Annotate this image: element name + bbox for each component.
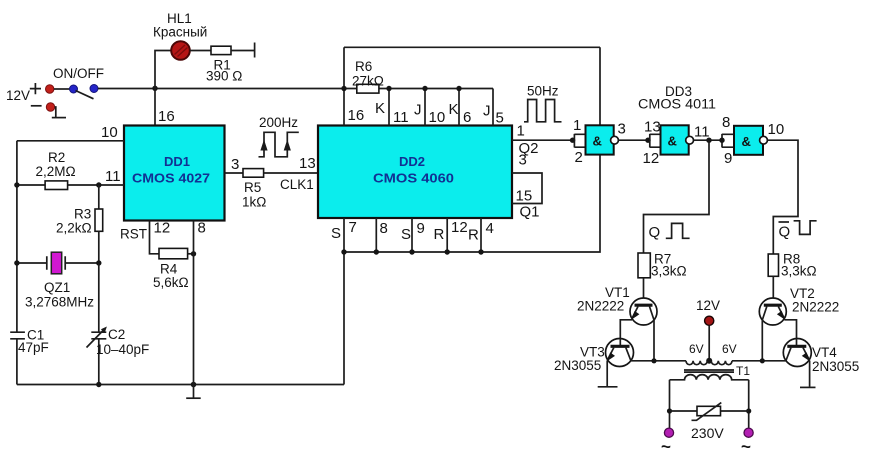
node crystal right <box>96 260 101 265</box>
svg-text:3: 3 <box>519 152 527 169</box>
wire DD2 pin8 <box>374 218 388 255</box>
svg-text:1: 1 <box>517 123 525 140</box>
svg-text:13: 13 <box>644 119 661 136</box>
svg-text:16: 16 <box>158 108 175 125</box>
svg-text:R3: R3 <box>74 207 91 222</box>
wire VT2 emitter to VT4 base <box>784 320 796 342</box>
svg-text:CMOS 4027: CMOS 4027 <box>132 171 210 186</box>
node VT1 collector junction <box>651 358 656 363</box>
svg-text:3: 3 <box>231 156 239 173</box>
pin 12 RST wire DD1 <box>120 220 170 254</box>
resistor R7 3,3k <box>638 252 687 279</box>
node C2 bottom <box>96 382 101 387</box>
svg-text:12V: 12V <box>696 298 720 313</box>
wire DD2 pin6 <box>456 86 471 126</box>
svg-text:12: 12 <box>451 219 468 236</box>
wire left vertical net <box>16 141 18 385</box>
wire DD2 pin5 <box>493 89 504 127</box>
node R4/pin8 <box>191 251 196 256</box>
svg-text:47pF: 47pF <box>18 340 49 355</box>
wire S/R bottom bus <box>344 47 600 384</box>
svg-text:1kΩ: 1kΩ <box>242 195 266 210</box>
node rail/pin16 <box>341 86 346 91</box>
pin 11 wire DD1 <box>17 168 124 185</box>
wire DD2 pin3 to pin15 loop Q1 <box>512 152 542 221</box>
svg-text:12: 12 <box>643 150 660 167</box>
svg-text:11: 11 <box>105 168 121 185</box>
svg-text:2N2222: 2N2222 <box>792 300 839 315</box>
svg-text:&: & <box>742 134 751 149</box>
svg-text:K: K <box>375 100 385 117</box>
svg-text:11: 11 <box>694 124 710 141</box>
wire gate1 input bracket <box>574 134 585 148</box>
svg-text:8: 8 <box>198 220 206 237</box>
transformer T1 secondary winding <box>670 364 751 380</box>
transformer T1 primary winding <box>686 342 737 365</box>
wire R1 to end bar <box>231 50 255 52</box>
svg-text:3: 3 <box>618 121 626 138</box>
svg-text:10: 10 <box>768 121 785 138</box>
svg-text:13: 13 <box>299 155 316 172</box>
svg-text:10: 10 <box>429 109 446 126</box>
ground VT3 emitter <box>598 361 618 387</box>
12V supply terminal <box>696 298 720 361</box>
svg-text:T1: T1 <box>736 364 750 378</box>
node varistor right <box>746 408 751 413</box>
resistor R2 2,2M <box>36 150 76 190</box>
svg-text:50Hz: 50Hz <box>527 84 559 99</box>
wire bottom ground bus <box>17 384 344 386</box>
transistor VT1 2N2222 <box>577 278 657 361</box>
wire secondary right lead <box>748 380 750 428</box>
svg-text:27kΩ: 27kΩ <box>352 74 384 89</box>
node gate1 input junction <box>570 138 575 143</box>
wire gate3 input bracket <box>722 134 734 148</box>
wire gate2 input bracket <box>650 134 661 148</box>
svg-text:12: 12 <box>154 220 171 237</box>
svg-text:2: 2 <box>575 149 583 166</box>
wire collector line left (to transformer) <box>630 360 686 362</box>
ground (main bus) <box>186 385 201 399</box>
ground VT4 emitter <box>800 361 816 388</box>
transformer T1 core <box>684 370 734 372</box>
wire DD2 pin11 <box>386 86 408 126</box>
resistor R5 1k <box>242 169 266 210</box>
pin 10 wire DD1 <box>17 124 124 141</box>
svg-text:7: 7 <box>349 219 357 236</box>
svg-text:QZ1: QZ1 <box>44 280 70 295</box>
wire VT1 emitter to VT3 base <box>620 320 632 342</box>
svg-text:3,2768MHz: 3,2768MHz <box>25 295 94 310</box>
svg-text:CMOS 4011: CMOS 4011 <box>638 97 716 112</box>
svg-text:ON/OFF: ON/OFF <box>53 66 104 81</box>
pin 8 wire DD1 <box>194 220 206 385</box>
wire crystal line <box>17 262 99 264</box>
op gate U1C NAND (DD3 pins 8,9,10) <box>722 114 784 167</box>
terminal end bar <box>254 43 256 58</box>
svg-text:~: ~ <box>741 437 751 456</box>
svg-text:9: 9 <box>724 150 732 167</box>
resistor R6 27k <box>352 59 384 93</box>
node gate2 input junction <box>645 138 650 143</box>
svg-text:10–40pF: 10–40pF <box>96 342 149 357</box>
svg-text:9: 9 <box>417 220 425 237</box>
svg-text:VT4: VT4 <box>812 345 837 360</box>
resistor R1 390 Ohm <box>206 46 242 83</box>
svg-text:200Hz: 200Hz <box>259 115 298 130</box>
IC DD1 CMOS 4027 <box>124 126 225 221</box>
svg-text:11: 11 <box>393 109 409 126</box>
svg-text:3,3kΩ: 3,3kΩ <box>781 264 817 279</box>
node crystal left <box>14 260 19 265</box>
wire top feedback bus <box>344 46 600 48</box>
battery plus terminal 12V <box>6 83 54 103</box>
svg-text:230V: 230V <box>691 425 724 441</box>
ground (battery minus) <box>52 107 66 118</box>
svg-text:DD2: DD2 <box>399 154 425 169</box>
resistor R8 3,3k <box>768 252 816 279</box>
wire: 12V rail <box>98 88 493 90</box>
svg-text:390 Ω: 390 Ω <box>206 69 242 84</box>
svg-text:Q1: Q1 <box>520 204 540 221</box>
svg-text:&: & <box>668 134 677 149</box>
svg-text:CMOS 4060: CMOS 4060 <box>373 171 454 186</box>
crystal QZ1 3,2768MHz <box>25 252 94 309</box>
wire DD2 pin4 <box>468 218 494 255</box>
svg-text:CLK1: CLK1 <box>280 177 314 192</box>
svg-text:5,6kΩ: 5,6kΩ <box>153 275 189 290</box>
switch ON/OFF <box>53 66 104 99</box>
Q waveform symbol <box>649 223 690 241</box>
svg-text:8: 8 <box>380 220 388 237</box>
node Q branch junction <box>706 138 711 143</box>
wire DD2 pin10 <box>422 86 445 126</box>
svg-text:&: & <box>593 134 602 149</box>
pin 3 wire DD1 to R5 <box>225 156 244 173</box>
svg-text:S: S <box>331 225 341 242</box>
svg-text:Q: Q <box>779 224 791 241</box>
wire R5 to DD2 pin13 CLK1 <box>264 155 318 192</box>
svg-text:R: R <box>434 226 445 243</box>
svg-text:K: K <box>449 101 459 118</box>
svg-text:10: 10 <box>101 124 118 141</box>
node varistor left <box>667 408 672 413</box>
node VT2 collector junction <box>760 358 765 363</box>
wire secondary left lead <box>669 380 671 428</box>
svg-text:~: ~ <box>661 437 671 456</box>
node ground junction <box>191 382 197 388</box>
wire Q line to R7 <box>644 140 710 253</box>
wire LED to R1 <box>190 50 211 52</box>
svg-text:2N3055: 2N3055 <box>812 359 859 374</box>
IC DD2 CMOS 4060 <box>318 126 512 219</box>
svg-text:C2: C2 <box>108 327 125 342</box>
capacitor C2 10-40pF (trimmer) <box>87 263 150 385</box>
svg-text:R5: R5 <box>244 180 261 195</box>
svg-text:8: 8 <box>722 114 730 131</box>
label DD3 CMOS 4011 <box>638 84 716 112</box>
node bus left <box>341 249 346 254</box>
op gate U1B NAND (DD3 pins 13,12,11) <box>643 119 710 168</box>
svg-text:Красный: Красный <box>153 25 207 40</box>
wire gate1 out to gate2 <box>618 139 649 141</box>
wire HL1 branch <box>155 51 171 126</box>
200Hz clock waveform symbol <box>259 115 299 157</box>
svg-text:S: S <box>401 226 411 243</box>
svg-text:RST: RST <box>120 227 147 242</box>
varistor (surge protector) <box>670 403 749 421</box>
node R2 left <box>14 182 19 187</box>
transistor VT3 2N3055 <box>554 339 634 374</box>
svg-text:3,3kΩ: 3,3kΩ <box>651 264 687 279</box>
wire DD2 pin16 vertical <box>344 47 364 125</box>
svg-text:5: 5 <box>496 110 504 127</box>
svg-text:R2: R2 <box>48 150 65 165</box>
svg-text:J: J <box>483 103 491 120</box>
K J K J labels DD2 top <box>375 100 491 120</box>
node junction rail/HL1/DD1 pin16 <box>152 86 157 91</box>
wire DD2 pin1 Q2 output <box>512 123 574 158</box>
node transformer center tap <box>706 358 712 364</box>
svg-text:J: J <box>414 102 422 119</box>
LED HL1 Красный <box>153 11 207 60</box>
wire DD2 pin7 label <box>331 219 357 242</box>
Q-bar waveform symbol <box>779 221 817 241</box>
wire Q-bar line to R8 <box>767 140 798 254</box>
transistor VT2 2N2222 <box>759 276 839 361</box>
svg-text:16: 16 <box>348 107 365 124</box>
transistor VT4 2N3055 <box>783 339 859 375</box>
svg-text:4: 4 <box>486 220 494 237</box>
svg-text:6V: 6V <box>689 342 704 356</box>
svg-text:1: 1 <box>573 117 581 134</box>
svg-text:6V: 6V <box>722 342 737 356</box>
resistor R4 5,6k <box>153 248 194 290</box>
battery minus terminal <box>31 103 55 111</box>
svg-text:Q: Q <box>649 224 661 241</box>
svg-text:2,2kΩ: 2,2kΩ <box>56 221 92 236</box>
wire gate2 out to gate3 <box>694 139 723 141</box>
resistor R3 2,2k <box>56 185 103 263</box>
svg-text:12V: 12V <box>6 88 30 103</box>
output terminal left 230V <box>661 428 674 456</box>
svg-text:2N3055: 2N3055 <box>554 358 601 373</box>
svg-text:DD1: DD1 <box>164 154 190 169</box>
svg-text:R6: R6 <box>355 59 372 74</box>
wire collector line right (to transformer) <box>732 360 787 362</box>
capacitor C1 47pF <box>10 328 49 356</box>
svg-text:R: R <box>468 227 479 244</box>
node R2/R3 junction <box>96 182 101 187</box>
svg-text:2,2MΩ: 2,2MΩ <box>36 164 76 179</box>
wire DD2 pin12 <box>434 218 468 255</box>
output terminal right 230V <box>741 428 753 456</box>
wire DD2 pin9 <box>401 218 425 255</box>
50Hz waveform symbol <box>524 84 562 122</box>
op gate U1A NAND (DD3 pins 1,2,3) <box>573 117 626 166</box>
svg-text:6: 6 <box>463 109 471 126</box>
svg-text:2N2222: 2N2222 <box>577 299 624 314</box>
svg-text:15: 15 <box>516 188 533 205</box>
